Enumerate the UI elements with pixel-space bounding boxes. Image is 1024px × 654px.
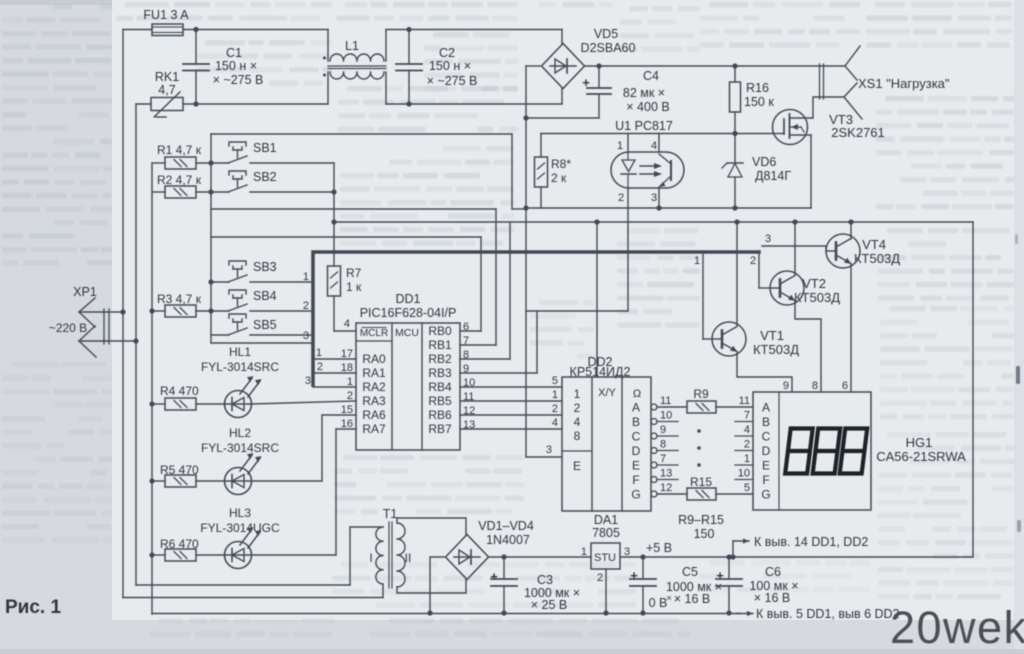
svg-text:1 к: 1 к <box>346 280 362 294</box>
wire VT1 base from bus <box>702 252 704 339</box>
wire SB box lower edge <box>211 342 313 344</box>
node C2 bottom <box>406 101 411 106</box>
svg-text:A: A <box>762 401 770 415</box>
svg-text:10: 10 <box>738 468 750 480</box>
svg-text:SB4: SB4 <box>253 289 277 303</box>
wire VT2 collector <box>794 222 796 275</box>
wire C4 negative link <box>526 117 599 119</box>
wire neutral rail <box>136 103 151 105</box>
wire VT4 base from bus <box>762 246 827 251</box>
svg-text:2SK2761: 2SK2761 <box>831 125 885 140</box>
svg-text:HL3: HL3 <box>229 506 251 520</box>
svg-text:6: 6 <box>842 380 848 392</box>
svg-text:1: 1 <box>316 347 322 359</box>
svg-text:КТ503Д: КТ503Д <box>854 251 900 266</box>
wire VT1 emitter to HG1 pin9 <box>737 352 792 392</box>
wire ground rail <box>152 613 740 615</box>
svg-text:VT4: VT4 <box>862 237 886 252</box>
svg-text:E: E <box>762 459 770 473</box>
svg-text:5: 5 <box>552 375 558 387</box>
node C1 top <box>193 27 198 32</box>
node VD6 bottom <box>732 205 737 210</box>
node C3 top <box>501 554 506 559</box>
svg-text:RA6: RA6 <box>362 408 386 422</box>
svg-text:C: C <box>762 430 771 444</box>
wire RA0 input <box>315 358 356 360</box>
svg-text:4,7: 4,7 <box>158 83 175 97</box>
svg-text:RK1: RK1 <box>155 70 179 84</box>
svg-text:8: 8 <box>574 429 581 443</box>
svg-text:8: 8 <box>812 380 818 392</box>
svg-text:VT1: VT1 <box>760 328 784 343</box>
svg-text:RA3: RA3 <box>362 394 386 408</box>
wire VT3 drain to XS1 <box>812 97 844 118</box>
node C5 bottom <box>640 610 645 615</box>
svg-text:КТ503Д: КТ503Д <box>753 342 799 357</box>
svg-text:E: E <box>632 459 640 473</box>
svg-text:0 В: 0 В <box>649 596 668 610</box>
svg-text:7805: 7805 <box>592 526 620 540</box>
node R5 left <box>149 478 154 483</box>
svg-text:10: 10 <box>660 410 672 422</box>
svg-text:FU1 3 A: FU1 3 A <box>143 8 189 22</box>
svg-text:R16: R16 <box>746 81 769 95</box>
node C6 bottom <box>726 610 731 615</box>
svg-text:1N4007: 1N4007 <box>486 533 530 547</box>
wire bridge minus to ground rail <box>430 557 444 613</box>
svg-text:II: II <box>405 551 412 565</box>
svg-text:C6: C6 <box>765 565 781 579</box>
svg-text:150: 150 <box>694 527 715 541</box>
svg-text:4: 4 <box>651 140 657 152</box>
wire neutral vertical bus <box>135 104 137 585</box>
svg-text:3: 3 <box>651 192 657 204</box>
svg-text:C3: C3 <box>537 573 553 587</box>
background text block right of HG1 <box>878 432 1014 599</box>
node SB2 junction <box>331 189 336 194</box>
svg-text:82 мк ×: 82 мк × <box>623 86 665 100</box>
node R4 left <box>149 401 154 406</box>
svg-text:R8*: R8* <box>551 157 571 171</box>
node R8 bottom <box>523 205 528 210</box>
svg-text:1: 1 <box>581 546 587 558</box>
node DD2 power junction <box>594 219 599 224</box>
wire R9 to HG1 pin 11 <box>716 406 753 408</box>
background text block below FU1 <box>196 40 332 86</box>
svg-text:4: 4 <box>574 415 581 429</box>
wire HL1 to RA3 <box>251 401 356 404</box>
svg-text:F: F <box>762 473 769 487</box>
svg-text:RA2: RA2 <box>362 380 386 394</box>
node C2 top <box>406 27 411 32</box>
svg-text:18: 18 <box>341 362 353 374</box>
wire SB1 SB2 to R7 vertical <box>333 163 335 266</box>
wire SB3 box top to RB0 <box>211 236 481 238</box>
node C1 bottom <box>193 101 198 106</box>
arrow to pin14 DD1 DD2 <box>732 541 734 557</box>
background text block bottom <box>332 562 636 608</box>
wire VT4 collector <box>850 222 852 239</box>
svg-text:U1 PC817: U1 PC817 <box>615 119 673 133</box>
svg-text:1: 1 <box>303 271 309 283</box>
svg-text:2: 2 <box>574 401 581 415</box>
node R16 bottom gate node <box>732 131 737 136</box>
node bridge ground <box>427 610 432 615</box>
svg-text:× ~275 В: × ~275 В <box>427 74 478 88</box>
svg-text:HL1: HL1 <box>229 345 251 359</box>
wire VT1 collector <box>736 222 738 326</box>
wire RA2 input <box>313 386 356 388</box>
svg-text:VT2: VT2 <box>802 276 826 291</box>
svg-text:RB7: RB7 <box>428 422 452 436</box>
svg-text:Ω: Ω <box>633 388 641 400</box>
node R16 top <box>732 63 737 68</box>
svg-text:4: 4 <box>744 424 750 436</box>
svg-text:20wek: 20wek <box>890 602 1024 649</box>
node SB3 left <box>208 279 213 284</box>
svg-text:RB5: RB5 <box>428 394 452 408</box>
wire RB2 up <box>460 358 510 360</box>
svg-text:3: 3 <box>303 330 309 342</box>
node R6 left <box>149 552 154 557</box>
wire segment A to R9 <box>657 406 687 408</box>
svg-text:C: C <box>632 430 641 444</box>
svg-text:2: 2 <box>597 572 603 584</box>
wire VT2 emitter to HG1 pin8 <box>795 301 821 392</box>
svg-text:× 400 В: × 400 В <box>626 100 669 114</box>
ellipsis dots between R9 R15 <box>697 429 701 433</box>
svg-text:RB4: RB4 <box>428 380 452 394</box>
node C3 bottom <box>501 610 506 615</box>
wire R15 to HG1 pin 5 <box>716 493 753 495</box>
svg-text:2: 2 <box>750 255 756 267</box>
svg-text:SB3: SB3 <box>253 260 277 274</box>
svg-text:2: 2 <box>552 403 558 415</box>
svg-text:C5: C5 <box>682 565 698 579</box>
svg-text:RB1: RB1 <box>428 338 452 352</box>
svg-text:FYL-3014SRC: FYL-3014SRC <box>201 360 279 374</box>
wire top mains rail <box>123 29 152 31</box>
node DA1 ground <box>603 610 608 615</box>
svg-text:FYL-3014UGC: FYL-3014UGC <box>200 521 280 535</box>
svg-text:RA7: RA7 <box>362 422 386 436</box>
svg-text:150 к: 150 к <box>744 95 774 109</box>
svg-text:VD5: VD5 <box>594 27 618 41</box>
DD2 output bubbles <box>651 404 657 410</box>
svg-text:X/Y: X/Y <box>598 387 616 399</box>
node C5 top <box>640 554 645 559</box>
svg-text:1: 1 <box>552 389 558 401</box>
svg-text:L1: L1 <box>345 39 359 53</box>
wire plus5 rail middle <box>334 221 973 223</box>
svg-text:1: 1 <box>744 453 750 465</box>
svg-text:T1: T1 <box>383 507 398 521</box>
svg-text:К выв. 14 DD1, DD2: К выв. 14 DD1, DD2 <box>754 535 868 549</box>
svg-text:К выв. 5 DD1, выв 6 DD2: К выв. 5 DD1, выв 6 DD2 <box>756 607 900 621</box>
wire VT2 base from bus <box>758 252 760 288</box>
svg-text:9: 9 <box>660 424 666 436</box>
background text top strip <box>116 2 332 21</box>
node VT4 collector rail <box>848 219 853 224</box>
wire DD2 E input <box>526 456 562 458</box>
svg-text:R9–R15: R9–R15 <box>678 513 724 527</box>
wire secondary bottom to bridge <box>397 579 466 593</box>
wire switch box top <box>211 133 512 135</box>
wire HL2 to RA6 <box>251 480 322 482</box>
svg-text:F: F <box>632 473 639 487</box>
HG1 digit eights <box>785 429 813 474</box>
svg-text:× 16 В: × 16 В <box>674 592 711 606</box>
svg-text:2: 2 <box>618 192 624 204</box>
wire optocoupler top link <box>541 133 772 135</box>
svg-text:3: 3 <box>546 444 552 456</box>
wire secondary top to bridge <box>397 518 466 535</box>
wire DC- drop from bridge <box>526 65 540 67</box>
svg-text:D: D <box>762 444 771 458</box>
node U1 pin3 <box>656 205 661 210</box>
svg-text:XP1: XP1 <box>73 285 97 299</box>
wire resistor common bus <box>151 163 153 614</box>
svg-text:R7: R7 <box>346 266 362 280</box>
group bus thick line <box>313 252 759 385</box>
svg-text:C4: C4 <box>643 69 659 83</box>
wire RB5 to DD2 <box>460 400 562 402</box>
svg-text:G: G <box>761 488 770 502</box>
svg-text:150 н ×: 150 н × <box>215 59 257 73</box>
svg-text:4: 4 <box>552 417 558 429</box>
svg-text:1: 1 <box>617 140 623 152</box>
node C4 top <box>596 63 601 68</box>
HG1 pin stubs left <box>735 421 753 423</box>
wire RB0 up <box>460 330 481 332</box>
wire right border vertical <box>972 222 974 556</box>
svg-text:B: B <box>762 415 770 429</box>
wire bridge plus to DA1 <box>488 556 591 558</box>
background text block above filter right <box>424 32 518 91</box>
svg-text:1: 1 <box>694 255 700 267</box>
node VT2 collector rail <box>792 219 797 224</box>
svg-text:MCLR: MCLR <box>360 328 388 339</box>
svg-text:17: 17 <box>341 348 353 360</box>
svg-text:3: 3 <box>765 233 771 245</box>
svg-text:13: 13 <box>660 468 672 480</box>
svg-text:2: 2 <box>347 390 353 402</box>
svg-text:Рис. 1: Рис. 1 <box>5 597 61 618</box>
svg-text:11: 11 <box>660 395 671 407</box>
wire RB1 up <box>460 344 496 346</box>
wire VT4 emitter to HG1 pin6 <box>850 264 852 392</box>
svg-text:2: 2 <box>744 439 750 451</box>
svg-text:8: 8 <box>660 439 666 451</box>
background text block under DD1 <box>334 455 524 514</box>
node R3 left <box>149 308 154 313</box>
svg-text:R3 4,7 к: R3 4,7 к <box>157 292 202 306</box>
svg-text:HG1: HG1 <box>906 435 933 450</box>
svg-text:FYL-3014SRC: FYL-3014SRC <box>201 441 279 455</box>
svg-text:R2 4,7 к: R2 4,7 к <box>157 173 202 187</box>
svg-text:9: 9 <box>783 380 789 392</box>
svg-text:R9: R9 <box>693 387 709 401</box>
node R1 right <box>208 160 213 165</box>
svg-text:DA1: DA1 <box>594 513 618 527</box>
wire DC- bottom bus <box>526 207 811 209</box>
svg-text:2 к: 2 к <box>551 171 567 185</box>
svg-text:DD1: DD1 <box>395 292 420 306</box>
wire plus5 output rail <box>620 556 973 558</box>
svg-text:150 н ×: 150 н × <box>429 59 471 73</box>
svg-text:× 16 В: × 16 В <box>754 591 791 605</box>
wire RB7 to DD2 <box>460 428 562 430</box>
svg-text:C1: C1 <box>226 46 242 60</box>
svg-text:D2SBA60: D2SBA60 <box>581 41 636 55</box>
wire RB6 to DD2 <box>460 414 562 416</box>
wire switch box bottom to RB1 <box>211 208 496 210</box>
svg-text:4: 4 <box>344 318 350 330</box>
node XP1 pin1 junction <box>120 309 125 314</box>
background text block middle right <box>617 228 700 328</box>
svg-text:5: 5 <box>744 482 750 494</box>
svg-text:RB3: RB3 <box>428 366 452 380</box>
svg-text:A: A <box>632 401 640 415</box>
svg-text:× 25 В: × 25 В <box>531 598 568 612</box>
background text block right of XS1 <box>876 96 1014 209</box>
right margin artifact marks <box>1016 366 1020 384</box>
svg-text:B: B <box>632 415 640 429</box>
node R2 right <box>208 189 213 194</box>
svg-text:R15: R15 <box>690 475 712 489</box>
wire HL3 to RA7 <box>251 554 336 556</box>
wire primary bottom to live <box>123 597 383 599</box>
svg-text:2: 2 <box>303 300 309 312</box>
svg-text:RB0: RB0 <box>428 324 452 338</box>
svg-text:I: I <box>369 551 372 565</box>
wire segment G to R15 <box>657 493 687 495</box>
svg-text:CA56-21SRWA: CA56-21SRWA <box>876 449 966 464</box>
svg-text:SB1: SB1 <box>253 141 277 155</box>
svg-text:×: × <box>666 593 671 603</box>
wire VT3 source to DC- bus <box>810 135 812 208</box>
svg-text:12: 12 <box>660 482 672 494</box>
svg-text:× ~275 В: × ~275 В <box>213 73 264 87</box>
svg-text:HL2: HL2 <box>229 426 251 440</box>
svg-text:E: E <box>573 459 581 473</box>
svg-text:RB2: RB2 <box>428 352 452 366</box>
svg-text:1: 1 <box>347 376 353 388</box>
svg-text:2: 2 <box>317 361 323 373</box>
svg-text:R1 4,7 к: R1 4,7 к <box>157 143 202 157</box>
svg-text:+5 В: +5 В <box>646 541 672 555</box>
svg-text:16: 16 <box>341 418 353 430</box>
node plus5 branch <box>730 554 735 559</box>
svg-text:SB2: SB2 <box>253 170 277 184</box>
svg-text:3: 3 <box>624 546 630 558</box>
DD2 output stubs <box>657 421 678 423</box>
svg-text:XS1 "Нагрузка": XS1 "Нагрузка" <box>858 76 950 91</box>
svg-text:7: 7 <box>744 410 750 422</box>
svg-text:1: 1 <box>574 387 581 401</box>
wire RB4 to DD2 <box>460 386 562 388</box>
svg-text:C2: C2 <box>439 46 455 60</box>
node R7 top rail junction <box>331 219 336 224</box>
svg-text:R4 470: R4 470 <box>160 384 199 398</box>
svg-text:+: + <box>490 569 498 584</box>
wire RA1 input <box>315 372 356 374</box>
svg-text:RA1: RA1 <box>362 366 386 380</box>
svg-text:SB5: SB5 <box>253 318 277 332</box>
node XP1 pin2 junction <box>133 338 138 343</box>
svg-text:G: G <box>631 488 640 502</box>
svg-text:7: 7 <box>660 453 666 465</box>
svg-text:11: 11 <box>739 395 750 407</box>
svg-text:+: + <box>716 568 724 583</box>
wire RB3 link <box>460 372 537 374</box>
node C6 top <box>726 554 731 559</box>
svg-text:3: 3 <box>305 375 311 387</box>
wire DC+ rail <box>584 65 845 67</box>
arrow to pin5 DD1 pin6 DD2 <box>737 613 753 615</box>
svg-text:RA0: RA0 <box>362 352 386 366</box>
svg-text:D: D <box>632 444 641 458</box>
svg-text:~220 В: ~220 В <box>49 321 87 335</box>
node DC- C4 branch <box>523 115 528 120</box>
svg-text:MCU: MCU <box>395 327 419 339</box>
svg-text:15: 15 <box>341 404 353 416</box>
svg-text:VD6: VD6 <box>752 155 776 169</box>
svg-text:Д814Г: Д814Г <box>755 169 791 183</box>
wire DD2 power drop <box>596 222 598 377</box>
svg-text:+: + <box>630 568 638 583</box>
background text block middle left of R8 <box>340 146 514 246</box>
svg-text:STU: STU <box>594 552 616 564</box>
svg-text:RB6: RB6 <box>428 408 452 422</box>
wire U1 pin2 to E line <box>526 310 628 312</box>
node VT1 collector rail <box>734 219 739 224</box>
node R3 right <box>208 308 213 313</box>
wire live vertical bus <box>122 30 124 598</box>
svg-text:PIC16F628-04I/P: PIC16F628-04I/P <box>360 306 457 320</box>
svg-text:VD1–VD4: VD1–VD4 <box>478 519 534 533</box>
wire DA1 pin2 ground <box>605 569 607 613</box>
